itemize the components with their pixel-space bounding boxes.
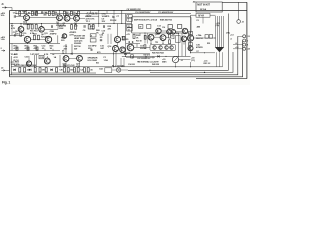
label R27	[74, 46, 81, 51]
wire ground bus y66.8	[11, 66, 222, 68]
svg-text:C14: C14	[162, 26, 165, 29]
label R18 vals	[33, 33, 37, 35]
svg-text:5W: 5W	[74, 48, 78, 50]
transistor Q10a	[182, 28, 187, 33]
junction y66.8 x113	[113, 66, 114, 67]
wire relay left lead	[191, 14, 197, 16]
svg-text:(7C): (7C)	[191, 60, 195, 62]
svg-text:R34: R34	[176, 32, 179, 35]
svg-text:C13: C13	[157, 25, 162, 27]
junction y66.8 x190	[190, 66, 191, 67]
resistor R5	[48, 11, 50, 15]
svg-text:MAX: MAX	[162, 61, 167, 64]
svg-text:D7: D7	[197, 51, 199, 53]
label R51b	[204, 60, 212, 65]
wire Q6 up	[41, 24, 43, 27]
wire top border bus	[10, 10, 247, 12]
resistor R70	[83, 68, 85, 72]
wire J2 to bus	[5, 69, 10, 71]
resistor R8	[63, 11, 65, 15]
relay box AF-64	[196, 13, 210, 17]
connector box 5	[90, 39, 96, 42]
wire Q16 out	[166, 37, 169, 39]
wire Q1 collector	[26, 11, 28, 15]
svg-text:J3: J3	[242, 21, 245, 23]
svg-text:C22 100MFD 6V: C22 100MFD 6V	[137, 58, 151, 60]
capacitor C1	[14, 15, 15, 18]
resistor R21b	[36, 47, 38, 50]
transistor Q23	[188, 46, 193, 51]
terminal T4	[243, 47, 246, 50]
svg-text:+34: +34	[235, 46, 239, 49]
label heat sink	[74, 36, 86, 41]
transistor Q15	[148, 34, 154, 40]
label c R21	[34, 46, 39, 51]
wire Q26-Q27	[69, 58, 77, 60]
transistor Q26	[63, 56, 69, 62]
wire riser x31	[32, 10, 53, 13]
wire riser x185.5	[185, 42, 187, 57]
svg-text:.05: .05	[100, 37, 104, 39]
svg-text:X29: X29	[15, 33, 19, 35]
label Q13	[122, 37, 130, 42]
svg-text:-8: -8	[246, 45, 249, 47]
transistor Q24	[26, 61, 31, 66]
wire Q18 to board	[134, 47, 150, 49]
terminal T1	[243, 35, 246, 38]
wire Q15-Q16 link	[154, 36, 160, 38]
svg-text:R60 D1 R62 D2 C40 R64: R60 D1 R62 D2 C40 R64	[14, 64, 37, 67]
wire J1 into frame	[6, 8, 12, 11]
label speaker	[88, 56, 98, 62]
label Q6	[41, 34, 50, 39]
resistor R37	[92, 25, 94, 29]
wire ground bus left y73	[11, 72, 96, 74]
capacitor C7	[112, 16, 114, 17]
resistor R13	[35, 24, 37, 29]
svg-text:R40 R41 R42: R40 R41 R42	[152, 52, 165, 55]
wire bundle	[216, 16, 224, 47]
input jack J2 arrow	[1, 70, 5, 72]
junction Q1 rail	[26, 10, 27, 11]
svg-text:7.4T MOT: 7.4T MOT	[30, 53, 40, 56]
label +12V 7A	[216, 23, 221, 27]
label C19	[102, 31, 106, 35]
transistor Q27	[77, 55, 83, 61]
capacitor C19	[104, 25, 105, 28]
resistor R51	[189, 43, 193, 46]
svg-text:C10 100MFD/25V: C10 100MFD/25V	[135, 12, 151, 14]
wire J3 feed	[238, 2, 240, 19]
label +12V A	[90, 26, 95, 30]
wire R2 riser	[19, 10, 21, 13]
junction y52.8 x190	[190, 52, 191, 53]
svg-text:220: 220	[108, 28, 112, 30]
capacitor C9b	[14, 34, 15, 36]
wire vertical x72	[71, 44, 73, 54]
svg-text:4.7K: 4.7K	[44, 53, 49, 56]
resistor R36	[88, 25, 90, 29]
svg-text:C4A: C4A	[22, 10, 26, 13]
diode D3	[124, 53, 126, 55]
transistor Q5	[18, 26, 24, 32]
wire C7 drop	[113, 11, 115, 24]
label x108	[0, 0, 1, 1]
transistor Q6	[39, 27, 45, 33]
resistor R63	[39, 68, 41, 72]
wire C1 to Q1	[16, 16, 24, 18]
junction y66.8 x34	[34, 66, 35, 67]
label +45V	[1, 12, 6, 17]
wire center stub3	[183, 42, 185, 45]
svg-text:C11 450MFD/16V: C11 450MFD/16V	[158, 11, 174, 14]
label c R19	[25, 46, 30, 51]
wire relay right lead	[210, 14, 216, 16]
svg-text:.05: .05	[42, 48, 46, 50]
transistor Q14	[113, 46, 119, 52]
svg-text:C40: C40	[59, 69, 63, 72]
wire vertical x66	[65, 44, 67, 54]
junction y53.8 x114	[113, 53, 114, 54]
transistor Q22	[187, 35, 193, 41]
resistor R68	[73, 68, 75, 72]
wire right spine x190.5	[190, 15, 192, 53]
resistor R18	[33, 35, 35, 40]
resistor R23b	[177, 25, 181, 29]
wire T3 lead	[233, 44, 243, 46]
label C7A	[102, 12, 110, 18]
resistor R12	[31, 24, 33, 29]
transistor Q1	[24, 15, 30, 21]
wire drop x125.6	[125, 14, 127, 57]
svg-text:W: W	[139, 26, 142, 28]
wire T2 lead	[242, 40, 244, 42]
junction y66.8 x60	[59, 66, 60, 67]
wire driver links	[161, 30, 182, 33]
resistor R67	[67, 68, 69, 72]
label +30 7C	[191, 57, 195, 62]
wire bus y53.8	[50, 53, 150, 55]
diode D12	[50, 69, 52, 71]
svg-text:+ PAL: + PAL	[196, 34, 202, 37]
meter M1	[172, 56, 178, 62]
wire Q5 up	[20, 24, 22, 27]
wire verticals x108 x111	[108, 34, 111, 44]
wire top hline y16 mid	[85, 15, 99, 17]
svg-text:R30 1K: R30 1K	[136, 41, 143, 43]
diode D4	[157, 55, 159, 57]
resistor R60	[19, 68, 21, 72]
resistor R32	[169, 34, 171, 38]
svg-text:TP-1: TP-1	[86, 21, 91, 23]
wire Q10 bot	[27, 42, 29, 45]
label Q27	[76, 64, 81, 69]
label max	[162, 59, 167, 64]
label 4x3a	[62, 49, 65, 54]
junction x114 bus	[113, 23, 114, 24]
resistor R21	[147, 25, 151, 29]
wire lamp leads	[112, 69, 128, 71]
transistor Q21	[165, 46, 169, 50]
resistor R28	[122, 36, 125, 40]
svg-text:47MFD: 47MFD	[50, 32, 57, 35]
resistor R22b	[168, 25, 172, 29]
wire drop x107	[106, 11, 108, 14]
wire Q11 bot	[48, 42, 50, 45]
terminal T2	[243, 39, 246, 42]
wire Q4 out	[79, 17, 85, 19]
wire center stub1	[150, 40, 152, 43]
junction top x121	[121, 10, 122, 11]
resistor R50	[189, 31, 193, 34]
module box small	[176, 36, 181, 43]
label 4.7K 10%	[86, 18, 95, 24]
svg-text:+13: +13	[230, 34, 234, 36]
svg-text:220: 220	[61, 40, 65, 42]
svg-text:C6: C6	[83, 30, 86, 32]
wire R36 risers	[89, 24, 93, 25]
transistor Q18	[127, 44, 134, 51]
label q23 vals	[196, 45, 203, 50]
svg-text:Q10: Q10	[23, 33, 28, 35]
svg-text:R51 2.2: R51 2.2	[204, 63, 212, 65]
svg-text:R55: R55	[207, 43, 210, 45]
wire R15 risers	[72, 24, 76, 25]
svg-text:.047: .047	[100, 47, 105, 50]
transistor Q8	[167, 29, 172, 34]
wire left risers	[11, 24, 13, 51]
resistor R11	[27, 24, 29, 29]
transistor Q13	[114, 36, 120, 42]
svg-text:.05: .05	[102, 33, 106, 35]
box C30	[39, 55, 44, 58]
svg-text:+7.2 VOLTS: +7.2 VOLTS	[86, 13, 99, 15]
resistor R10	[78, 11, 80, 15]
transistor Q10	[24, 36, 30, 42]
resistor R66	[63, 68, 65, 72]
wire bottom bus L1	[128, 14, 228, 71]
svg-text:J2: J2	[1, 68, 4, 70]
junction x98 bus	[98, 23, 99, 24]
junction x121 bus	[121, 23, 122, 24]
transistor Q25	[44, 58, 50, 64]
svg-text:R18: R18	[33, 33, 37, 35]
label 100MFD	[88, 45, 97, 50]
svg-text:1000: 1000	[70, 70, 75, 72]
resistor R31	[144, 35, 146, 39]
junction dark b	[132, 41, 134, 43]
resistor R17b	[16, 47, 18, 50]
label Q5	[15, 31, 19, 36]
svg-text:R49 10K: R49 10K	[152, 63, 160, 66]
transistor Q9	[171, 29, 176, 34]
resistor R62	[34, 68, 36, 72]
junction Q2 rail	[59, 10, 60, 11]
label Q26	[63, 64, 68, 69]
wire riser x178.5	[178, 33, 180, 56]
svg-text:-0: -0	[230, 39, 233, 41]
wire drop x103	[98, 11, 100, 24]
junction center d	[178, 56, 179, 57]
svg-text:1.2A: 1.2A	[1, 38, 6, 41]
label C4C value	[43, 11, 47, 16]
resistor R2	[19, 11, 21, 15]
label Q4	[74, 22, 78, 28]
wire box top link to right border	[222, 1, 247, 3]
label R3 value	[34, 11, 38, 16]
transistor Q3	[64, 15, 70, 21]
svg-text:+5: +5	[181, 60, 184, 62]
junction Q6 bus	[41, 23, 42, 24]
junction Q10 bus	[27, 43, 28, 44]
capacitor C5B	[51, 25, 52, 28]
svg-text:F2: F2	[197, 20, 200, 22]
svg-text:+13: +13	[246, 36, 250, 38]
resistor R4	[36, 11, 38, 15]
svg-text:C44: C44	[99, 68, 103, 71]
resistor R30	[133, 34, 135, 38]
terminal T3	[243, 43, 246, 46]
wire Q3-Q4 link	[70, 17, 74, 19]
junction y66.8 x175	[175, 66, 176, 67]
wire bus y23.5	[10, 23, 127, 25]
wire bus y23.5 ext	[126, 23, 132, 25]
wire bus y43.4	[10, 42, 61, 44]
wire y50.6 line	[10, 50, 60, 52]
label +40V	[1, 36, 6, 41]
label C5B	[50, 31, 57, 36]
wire riser x189	[188, 33, 190, 50]
resistor R54	[209, 35, 212, 39]
diode D10	[13, 69, 15, 71]
wire drop x90	[90, 11, 92, 14]
svg-text:C34 100: C34 100	[128, 63, 135, 66]
wire bottom border outer L4	[10, 41, 243, 77]
resistor R6	[52, 11, 54, 15]
wire center stub2	[162, 41, 164, 44]
svg-text:J1: J1	[1, 4, 4, 6]
label mid gap a	[96, 30, 100, 35]
label allres	[11, 61, 20, 67]
junction bus23 x58	[57, 23, 58, 24]
resistor R71	[87, 68, 89, 72]
svg-text:-0: -0	[246, 40, 249, 42]
wire below wedge	[217, 52, 223, 67]
svg-text:2: 2	[1, 48, 3, 50]
svg-text:NOT IN KIT: NOT IN KIT	[197, 3, 210, 7]
junction rail x16	[15, 13, 16, 14]
wire left border	[9, 11, 11, 77]
transistor Q7	[156, 28, 161, 33]
wire V+ rail y13.6	[16, 13, 191, 15]
svg-text:Q11: Q11	[44, 33, 48, 35]
svg-text:1K: 1K	[136, 38, 139, 40]
svg-text:R47 470: R47 470	[144, 53, 150, 56]
label Q10	[23, 33, 28, 35]
wire shield lines	[35, 55, 37, 67]
svg-text:R19 1K: R19 1K	[110, 20, 117, 22]
wire relay drop	[202, 17, 204, 23]
svg-text:AMP MODULE PC-12 0.5A: AMP MODULE PC-12 0.5A	[134, 18, 158, 21]
label c C12	[42, 46, 47, 51]
label 7B	[226, 33, 230, 35]
driver board outline	[132, 17, 192, 33]
wire rail riser left	[15, 11, 17, 14]
wire x60 drop	[59, 55, 61, 67]
svg-text:+34: +34	[246, 48, 250, 51]
svg-text:PL-1 117VAC: PL-1 117VAC	[112, 65, 125, 68]
wire meter row ticks	[133, 56, 154, 58]
svg-text:Q14: Q14	[108, 45, 113, 48]
resistor R45	[131, 55, 134, 58]
wire bus y56.4	[122, 55, 191, 57]
wire bus arrows	[70, 53, 73, 55]
svg-text:47MFD: 47MFD	[69, 31, 76, 34]
svg-text:HM NORMAL CL/LIGHT: HM NORMAL CL/LIGHT	[137, 61, 159, 64]
svg-text:+2V: +2V	[126, 34, 130, 36]
svg-text:1K: 1K	[52, 54, 55, 56]
wire Q1-Q2 link	[29, 17, 56, 19]
wire right border	[246, 2, 248, 78]
svg-text:C7: C7	[116, 16, 119, 18]
wire x121 x124 drops	[121, 58, 124, 67]
junction meterrow a	[145, 56, 146, 57]
junction y70.3 x150	[149, 70, 150, 71]
label R9 value	[73, 12, 77, 16]
label R14	[59, 25, 64, 30]
label 16V NP	[102, 18, 106, 23]
junction y52.8	[204, 52, 205, 53]
label R15 vals	[69, 31, 76, 37]
wire bottom corner L5	[196, 78, 247, 80]
terminal box 2	[127, 15, 132, 18]
svg-text:TP2: TP2	[155, 42, 158, 44]
label R24	[61, 37, 66, 43]
wire Q13-Q14	[117, 43, 119, 46]
wire Q10-Q11	[31, 39, 46, 41]
junction y56.4 x125	[125, 56, 126, 57]
wire bottom bus L2	[150, 52, 233, 72]
junction x103	[98, 10, 99, 11]
resistor R20	[139, 25, 143, 29]
junction bus23 x12	[11, 23, 12, 24]
svg-text:Fig. 1: Fig. 1	[2, 81, 10, 85]
resistor R64	[45, 68, 47, 72]
wire stub q25	[46, 56, 48, 58]
svg-text:4.7K: 4.7K	[14, 56, 19, 59]
svg-text:(7B): (7B)	[226, 33, 230, 35]
wire left inner border	[10, 56, 12, 75]
svg-text:4D: 4D	[193, 1, 196, 4]
svg-text:10%: 10%	[1, 15, 5, 17]
resistor R53	[205, 35, 208, 39]
label Q15	[155, 34, 160, 36]
svg-text:35V: 35V	[102, 21, 106, 23]
resistor R9	[70, 11, 72, 15]
svg-text:1K: 1K	[50, 48, 53, 50]
resistor R61	[24, 68, 26, 72]
diode D11	[29, 69, 31, 71]
junction rail x67	[66, 13, 67, 14]
svg-text:1A: 1A	[54, 56, 57, 59]
resistor R17	[20, 32, 22, 36]
svg-text:0.47: 0.47	[171, 37, 176, 40]
resistor R16	[75, 25, 77, 30]
wire verticals x145 x147	[145, 33, 147, 44]
resistor R33	[169, 40, 171, 44]
resistor R3	[31, 11, 33, 15]
wire q26 stub	[66, 61, 80, 67]
